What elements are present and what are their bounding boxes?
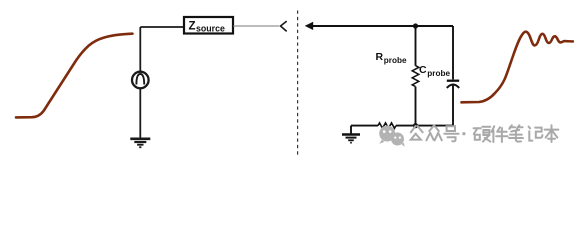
svg-text:source: source xyxy=(196,23,225,33)
svg-text:R: R xyxy=(376,51,384,63)
svg-text:probe: probe xyxy=(427,69,450,78)
svg-text:Z: Z xyxy=(189,21,196,33)
svg-text:probe: probe xyxy=(384,56,407,65)
svg-text:C: C xyxy=(419,64,427,76)
